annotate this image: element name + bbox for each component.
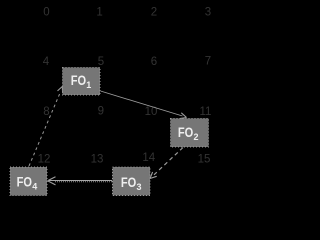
svg-text:8: 8 (43, 106, 49, 118)
wire: dashed arrow FO4 to FO1 (29, 87, 63, 167)
wire: solid arrow FO1 to FO2 (101, 91, 187, 119)
svg-text:5: 5 (98, 56, 104, 68)
svg-text:7: 7 (205, 56, 211, 68)
svg-text:6: 6 (151, 56, 157, 68)
svg-text:12: 12 (38, 154, 51, 166)
svg-text:FO: FO (17, 173, 32, 189)
svg-text:1: 1 (96, 7, 102, 19)
svg-text:13: 13 (91, 154, 104, 166)
svg-text:9: 9 (98, 105, 104, 117)
wire: solid arrow FO3 to FO4 with dotted underline (48, 177, 113, 185)
svg-text:1: 1 (86, 80, 91, 90)
svg-text:3: 3 (137, 182, 142, 192)
svg-text:15: 15 (198, 154, 211, 166)
svg-text:14: 14 (142, 152, 155, 164)
svg-text:11: 11 (200, 106, 212, 118)
node FO3 box (113, 167, 151, 196)
svg-text:0: 0 (43, 7, 49, 19)
svg-text:3: 3 (205, 6, 211, 18)
svg-text:FO: FO (178, 124, 193, 140)
node FO1 box (63, 68, 101, 96)
node FO4 box (10, 167, 47, 196)
node FO2 box (171, 119, 209, 148)
svg-text:FO: FO (71, 72, 86, 88)
svg-text:FO: FO (121, 174, 136, 190)
svg-text:2: 2 (151, 7, 157, 19)
wire: dashed arrow FO2 to FO3 (150, 148, 183, 179)
svg-text:4: 4 (32, 181, 37, 191)
svg-text:2: 2 (194, 132, 199, 142)
svg-text:4: 4 (43, 56, 50, 68)
